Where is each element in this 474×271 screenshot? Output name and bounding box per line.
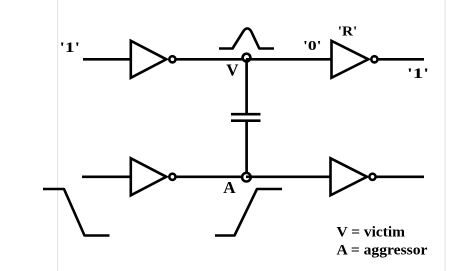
label V (226, 60, 239, 79)
wire (378, 58, 425, 61)
inverter U1 (131, 41, 176, 78)
wire (245, 59, 248, 113)
svg-text:A = aggressor: A = aggressor (337, 242, 428, 258)
wire (176, 175, 247, 178)
wire (83, 58, 131, 61)
svg-text:A: A (223, 178, 236, 197)
inverter U2 (332, 41, 378, 78)
falling edge input waveform (43, 189, 110, 236)
glitch pulse waveform on V (219, 28, 274, 48)
inverter U3 (131, 158, 176, 195)
node V (243, 54, 251, 62)
wire (246, 175, 331, 178)
wire (376, 175, 424, 178)
output label '1' (407, 66, 429, 82)
svg-text:V = victim: V = victim (337, 225, 406, 241)
legend V = victim (337, 225, 406, 241)
wire (82, 175, 131, 178)
svg-text:'1': '1' (407, 66, 429, 82)
input label '1' (60, 40, 81, 56)
wire (176, 58, 247, 61)
node A (242, 173, 251, 182)
rising edge waveform at A (215, 189, 282, 236)
svg-text:'R': 'R' (338, 25, 358, 40)
wire (245, 122, 248, 177)
label A (223, 178, 236, 197)
wire (246, 58, 332, 61)
inverter U4 (331, 158, 376, 195)
capacitor C1 (231, 114, 261, 121)
label '0' (303, 39, 322, 54)
svg-text:V: V (226, 60, 239, 79)
legend A = aggressor (337, 242, 428, 258)
label 'R' (338, 25, 358, 40)
svg-text:'0': '0' (303, 39, 322, 54)
svg-text:'1': '1' (60, 40, 81, 56)
